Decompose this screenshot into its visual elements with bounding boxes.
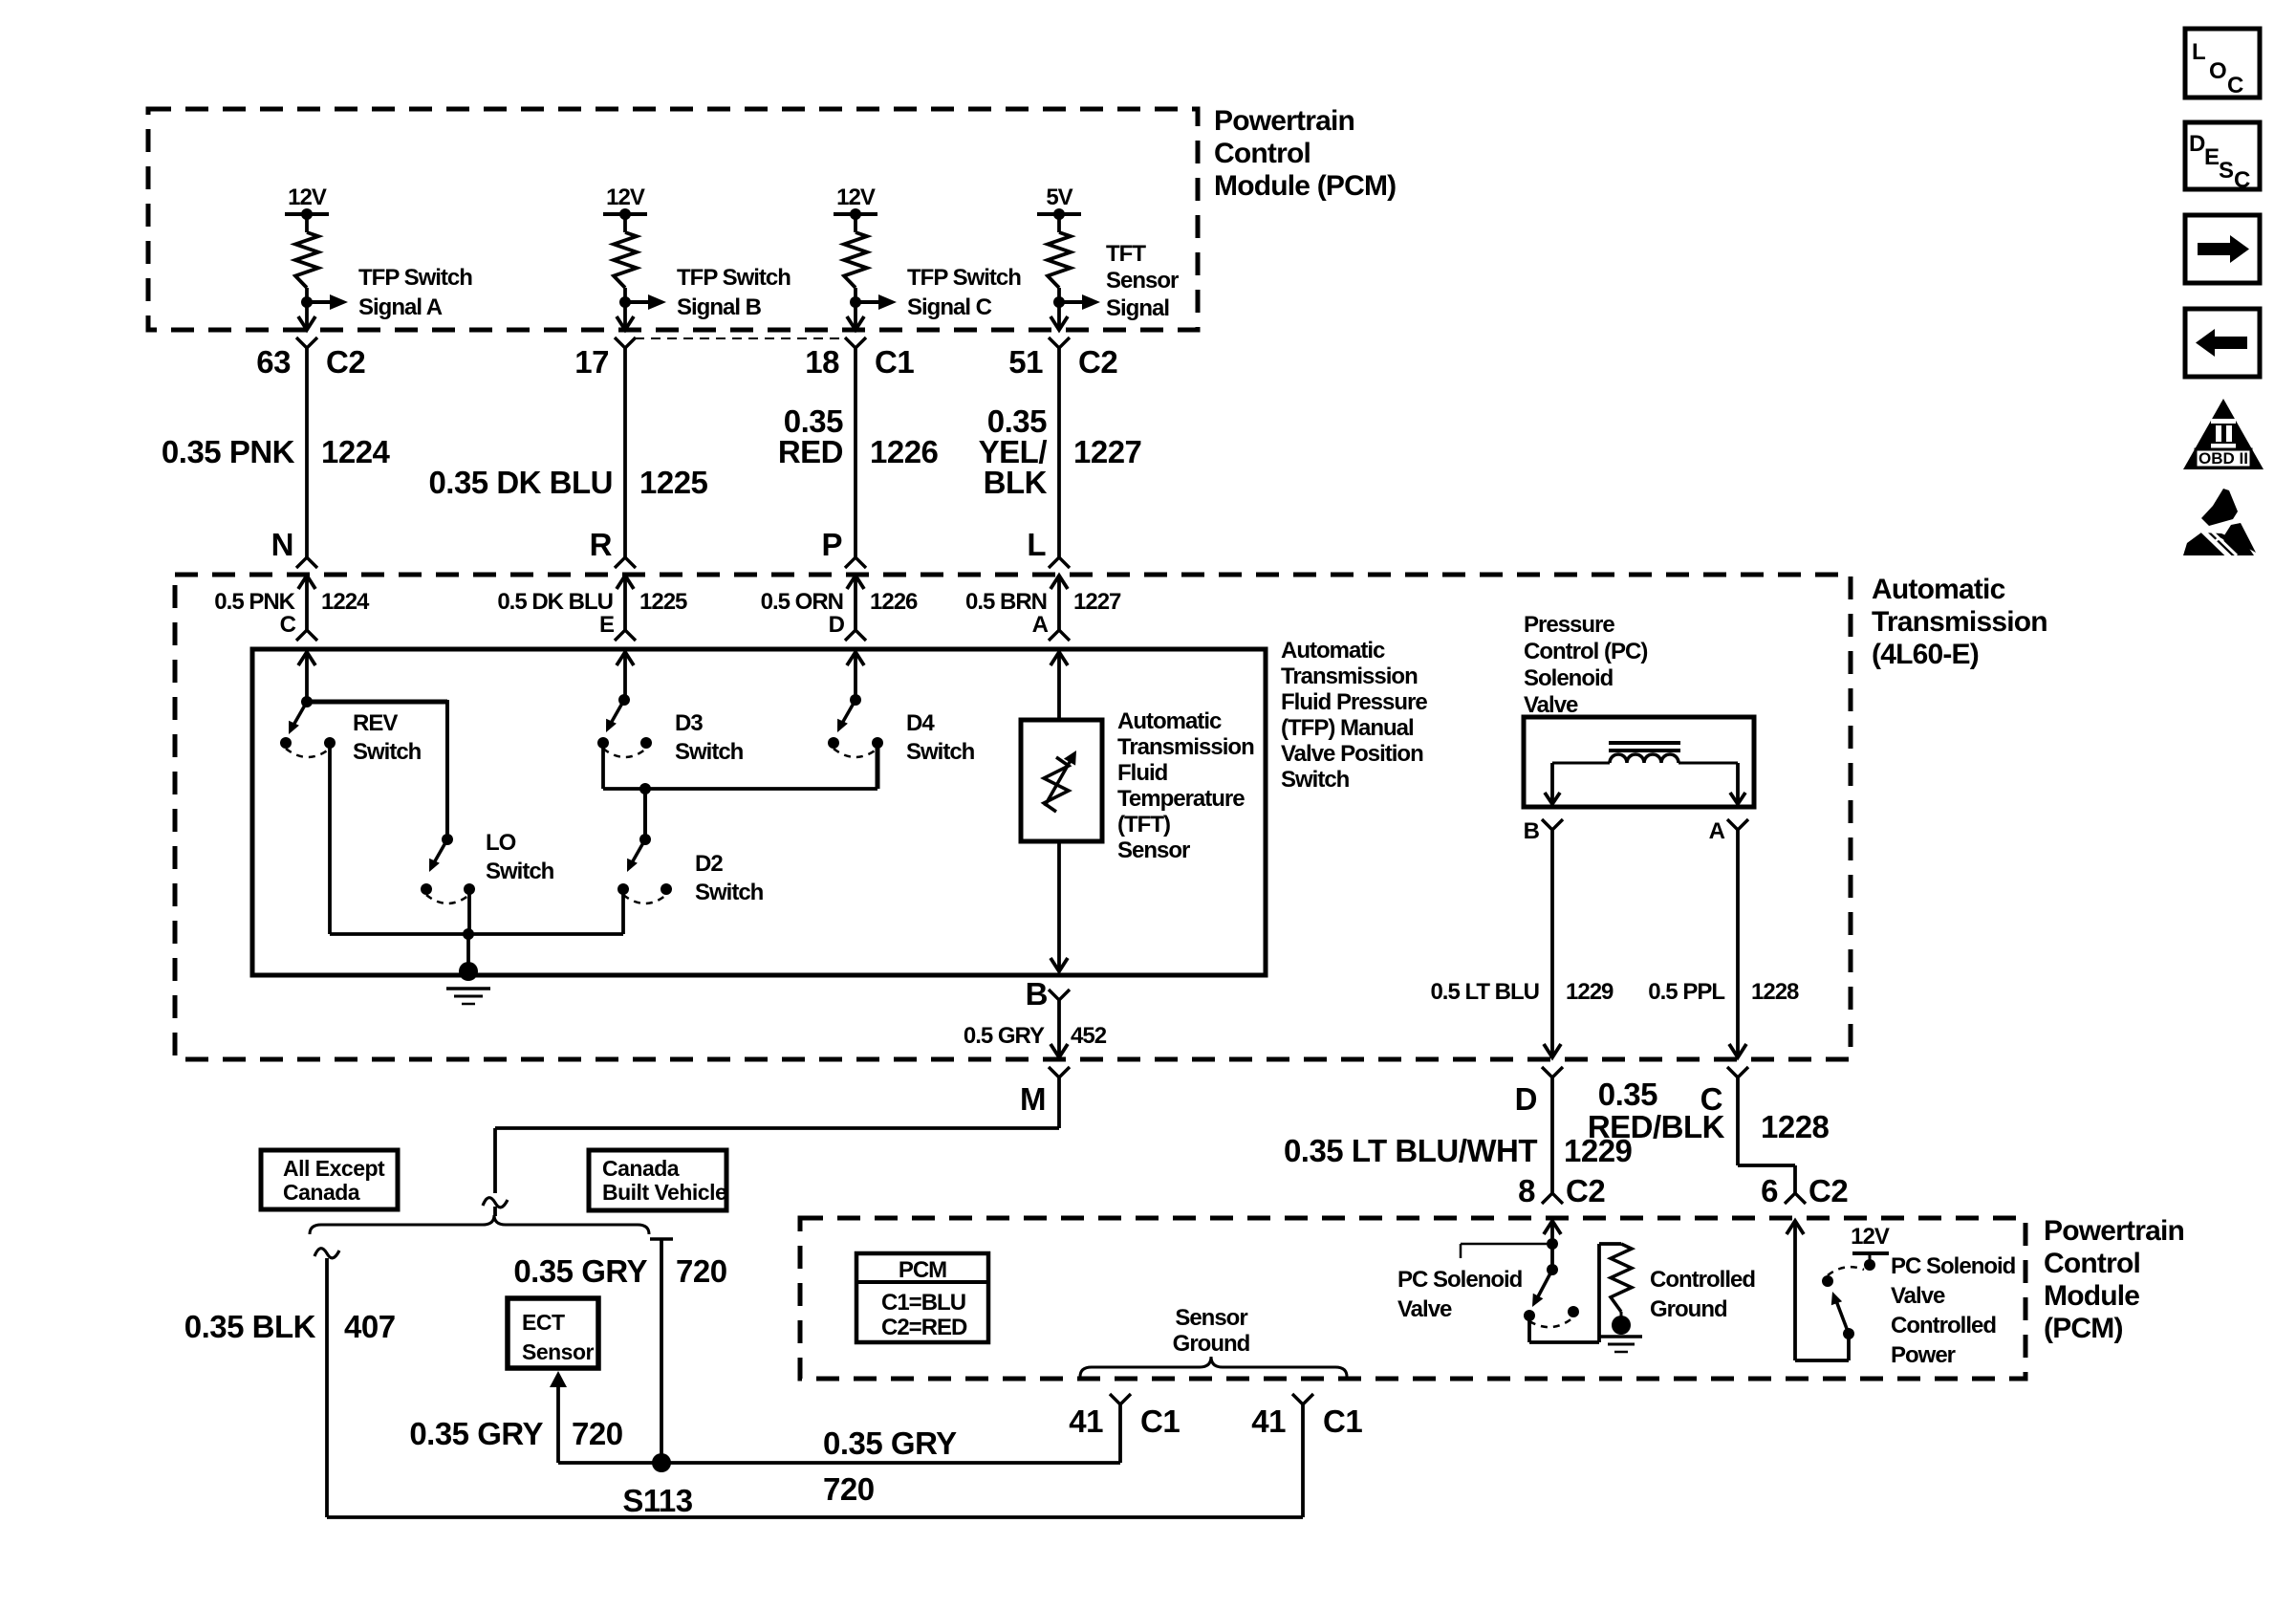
svg-text:C: C [280, 612, 296, 638]
connector fork solenoid pin A [1727, 819, 1748, 830]
value label 0.35 PNK 1224 [162, 434, 391, 469]
resistor R2 (pull-up) [614, 232, 637, 288]
PC solenoid valve box [1524, 717, 1754, 807]
pin label B (solenoid) [1524, 818, 1540, 844]
wire contact to controlled ground [1529, 1244, 1621, 1342]
svg-text:0.35 BLK: 0.35 BLK [184, 1309, 316, 1344]
svg-text:12V: 12V [288, 185, 327, 210]
svg-text:0.35 PNK: 0.35 PNK [162, 434, 295, 469]
value label 0.5 BRN 1227 [965, 589, 1121, 615]
value label 0.35 RED/BLK 1228 [1588, 1077, 1830, 1144]
leader PC Solenoid Valve [1461, 1244, 1547, 1258]
svg-text:1226: 1226 [870, 434, 939, 469]
svg-text:Control: Control [1214, 138, 1310, 169]
svg-text:PCM: PCM [899, 1257, 946, 1283]
PCM connector legend box [856, 1253, 988, 1342]
node 12V supply (circuit 3) [834, 185, 877, 220]
wire break symbol [483, 1198, 508, 1207]
wire LO contact down [467, 889, 471, 934]
option box: All Except Canada [261, 1150, 398, 1209]
svg-text:0.35 DK BLU: 0.35 DK BLU [428, 465, 613, 500]
label: Pressure Control (PC) Solenoid Valve [1524, 612, 1647, 718]
wire supply to resistor R2 [623, 214, 627, 232]
wire D3-D4 cross run [603, 787, 877, 791]
signal tap arrow (circuit 1) [307, 294, 348, 310]
resistor R4 (pull-up) [1048, 232, 1071, 288]
wire coil pin B side [1545, 763, 1560, 804]
label: S113 [622, 1483, 692, 1518]
value label 0.5 LT BLU 1229 [1430, 979, 1614, 1005]
svg-text:Signal C: Signal C [907, 294, 992, 320]
svg-text:A: A [1032, 612, 1049, 638]
svg-text:Controlled: Controlled [1891, 1313, 1996, 1338]
svg-text:C2=RED: C2=RED [881, 1315, 967, 1340]
switch REV arm [289, 702, 307, 734]
switch power arm [1831, 1292, 1849, 1334]
driver switch contacts [1524, 1306, 1579, 1321]
svg-text:Module: Module [2044, 1280, 2139, 1312]
svg-text:A: A [1709, 818, 1725, 844]
svg-text:E: E [2204, 144, 2220, 170]
wire 12xx harness (circuit 2) [623, 348, 627, 557]
svg-text:41: 41 [1069, 1403, 1103, 1439]
wire 1228 harness run [1738, 1077, 1795, 1193]
label: TFP Switch Signal A [358, 265, 472, 320]
svg-text:Valve: Valve [1524, 692, 1578, 718]
pin label A (solenoid) [1709, 818, 1725, 844]
svg-text:0.35 GRY: 0.35 GRY [823, 1425, 957, 1461]
wire pin A into switch box [1051, 652, 1068, 720]
icon: back arrow button [2185, 309, 2260, 377]
pin label B [1026, 976, 1048, 1012]
wire resistor to node (circuit 2) [623, 288, 627, 302]
svg-text:12V: 12V [1851, 1224, 1890, 1250]
wire resistor to node (circuit 1) [305, 288, 309, 302]
svg-text:18: 18 [805, 344, 839, 380]
wire supply to resistor R1 [305, 214, 309, 232]
label: PC Solenoid Valve Controlled Power [1891, 1253, 2016, 1368]
D2 switch throw (dashed) [623, 895, 666, 903]
label: Sensor Ground [1173, 1305, 1250, 1357]
REV switch contacts [280, 737, 336, 749]
svg-text:Automatic: Automatic [1117, 708, 1222, 734]
label: REV Switch [353, 710, 422, 765]
value label 0.5 DK BLU 1225 [497, 589, 687, 615]
wire to 41 C1 right [1301, 1404, 1305, 1517]
node LO switch input [442, 834, 453, 845]
value label 0.35 GRY 720 (upper) [513, 1253, 726, 1289]
wire REV to LO (top run) [307, 700, 447, 839]
pin label C [1700, 1081, 1722, 1117]
svg-text:1225: 1225 [639, 465, 708, 500]
pin label 41 C1 (left) [1069, 1403, 1180, 1439]
REV switch throw (dashed) [286, 749, 330, 757]
wire to options brace [493, 1207, 497, 1216]
svg-text:Sensor: Sensor [522, 1339, 595, 1364]
wire into transmission (circuit 2) [617, 576, 634, 630]
pin D (TFP switch) [829, 612, 845, 638]
label: TFT Sensor Signal [1106, 241, 1179, 321]
svg-text:51: 51 [1008, 344, 1043, 380]
svg-text:12V: 12V [606, 185, 645, 210]
svg-text:Fluid: Fluid [1117, 760, 1168, 786]
D4 switch throw (dashed) [834, 749, 877, 757]
power switch throw (dashed) [1828, 1267, 1864, 1275]
svg-text:ECT: ECT [522, 1310, 565, 1335]
node REV switch input [301, 696, 313, 707]
value label 0.35 GRY 720 (lower) [823, 1425, 957, 1507]
sensor ground brace [1080, 1357, 1347, 1377]
svg-text:0.5 DK BLU: 0.5 DK BLU [497, 589, 613, 615]
pin label 41 C1 (right) [1251, 1403, 1362, 1439]
icon: DESC button [2185, 122, 2260, 193]
svg-text:C1: C1 [1140, 1403, 1180, 1439]
svg-text:0.35: 0.35 [1598, 1077, 1657, 1112]
svg-text:TFP Switch: TFP Switch [907, 265, 1021, 291]
svg-text:720: 720 [572, 1416, 623, 1451]
node driver junction [1547, 1238, 1558, 1250]
svg-text:TFP Switch: TFP Switch [677, 265, 791, 291]
switch LO arm [429, 839, 447, 872]
svg-text:1225: 1225 [639, 589, 687, 615]
svg-text:Built Vehicle: Built Vehicle [602, 1180, 726, 1205]
svg-text:Control (PC): Control (PC) [1524, 639, 1647, 664]
svg-text:0.5 BRN: 0.5 BRN [965, 589, 1047, 615]
wire node to PCM edge (circuit 3) [847, 302, 864, 330]
svg-text:S: S [2219, 158, 2234, 184]
svg-text:Sensor: Sensor [1175, 1305, 1247, 1331]
svg-text:B: B [1524, 818, 1540, 844]
svg-text:1228: 1228 [1751, 979, 1799, 1005]
pin label 8 C2 [1518, 1173, 1605, 1208]
svg-text:PC Solenoid: PC Solenoid [1891, 1253, 2016, 1279]
svg-text:0.5 GRY: 0.5 GRY [964, 1023, 1045, 1049]
node D2 switch input [639, 834, 651, 845]
svg-text:Switch: Switch [486, 859, 554, 884]
svg-text:O: O [2209, 58, 2226, 84]
svg-text:D2: D2 [695, 851, 723, 877]
node signal junction (circuit 1) [301, 296, 313, 308]
svg-text:0.5 LT BLU: 0.5 LT BLU [1430, 979, 1539, 1005]
wire D4 contact down [876, 743, 880, 789]
pin label 17 [574, 344, 609, 380]
pin label 6 C2 [1761, 1173, 1848, 1208]
svg-text:C2: C2 [1809, 1173, 1848, 1208]
svg-text:OBD II: OBD II [2199, 449, 2248, 468]
D3 switch throw (dashed) [603, 749, 646, 757]
power switch contact [1822, 1275, 1833, 1287]
wire 452 to transmission edge [1051, 1000, 1068, 1057]
wire 12xx harness (circuit 3) [854, 348, 857, 557]
svg-text:C2: C2 [1078, 344, 1117, 380]
wire node to PCM edge (circuit 2) [617, 302, 634, 330]
svg-text:0.35 GRY: 0.35 GRY [409, 1416, 543, 1451]
wire 1228 inside transmission [1729, 830, 1746, 1057]
svg-text:(4L60-E): (4L60-E) [1872, 639, 1979, 670]
svg-text:5V: 5V [1046, 185, 1072, 210]
wire pin C into switch box [298, 652, 315, 702]
svg-text:Transmission: Transmission [1281, 664, 1418, 689]
svg-text:N: N [271, 527, 293, 562]
svg-text:RED/BLK: RED/BLK [1588, 1109, 1725, 1144]
node signal junction (circuit 4) [1053, 296, 1065, 308]
wire node to PCM edge (circuit 4) [1051, 302, 1068, 330]
svg-text:Module (PCM): Module (PCM) [1214, 170, 1396, 202]
svg-text:Switch: Switch [1281, 767, 1350, 793]
value label 0.35 RED 1226 [778, 403, 939, 469]
wire D3 contact down [601, 743, 605, 789]
solenoid core bars [1609, 743, 1680, 751]
node 12V supply (circuit 2) [603, 185, 647, 220]
node signal junction (circuit 3) [850, 296, 861, 308]
label: D3 Switch [675, 710, 744, 765]
svg-text:407: 407 [344, 1309, 396, 1344]
connector fork (transmission side, circuit 1) [296, 557, 317, 568]
connector fork at TFP switch pin E [615, 630, 636, 641]
node D2 branch junction [639, 783, 651, 794]
wire 1229 inside transmission [1544, 830, 1561, 1057]
connector fork pin 51 C2 (PCM side) [1049, 337, 1070, 348]
wire supply to resistor R4 [1057, 214, 1061, 232]
svg-text:TFT: TFT [1106, 241, 1146, 267]
driver switch throw (dashed) [1529, 1317, 1573, 1327]
wire D2 contact down [621, 889, 625, 934]
svg-text:P: P [821, 527, 842, 562]
D2 switch contacts [617, 883, 672, 895]
svg-text:Canada: Canada [283, 1180, 360, 1205]
svg-text:1227: 1227 [1073, 589, 1121, 615]
connector fork C (harness) [1727, 1067, 1748, 1077]
svg-text:1229: 1229 [1566, 979, 1614, 1005]
svg-text:Sensor: Sensor [1117, 838, 1190, 863]
wire resistor to node (circuit 3) [854, 288, 857, 302]
stub (Canada branch) [650, 1237, 673, 1241]
pin A (TFP switch) [1032, 612, 1049, 638]
switch D3 arm [606, 700, 624, 732]
svg-text:Control: Control [2044, 1248, 2140, 1279]
connector fork pin 41 C1 (left) [1110, 1394, 1131, 1404]
connector fork D (harness) [1542, 1067, 1563, 1077]
svg-text:0.35 LT BLU/WHT: 0.35 LT BLU/WHT [1284, 1133, 1537, 1168]
svg-text:C: C [2234, 167, 2250, 193]
resistor R1 (pull-up) [295, 232, 318, 288]
pin label 51 C2 [1008, 344, 1117, 380]
svg-text:720: 720 [823, 1471, 875, 1507]
connector fork M (harness side) [1049, 1067, 1070, 1077]
resistor (controlled ground) [1611, 1244, 1632, 1312]
svg-text:S113: S113 [622, 1483, 692, 1518]
svg-text:Switch: Switch [353, 739, 422, 765]
svg-text:M: M [1020, 1081, 1046, 1117]
svg-text:Power: Power [1891, 1342, 1956, 1368]
wire pin E into switch box [617, 652, 634, 700]
label: PC Solenoid Valve (driver) [1397, 1267, 1523, 1322]
node D4 switch input [850, 694, 861, 706]
PCM module boundary (bottom, dashed) [800, 1218, 2025, 1379]
wire into transmission (circuit 3) [847, 576, 864, 630]
resistor R3 (pull-up) [844, 232, 867, 288]
svg-text:0.5 PPL: 0.5 PPL [1648, 979, 1724, 1005]
svg-text:BLK: BLK [984, 465, 1048, 500]
svg-text:12V: 12V [836, 185, 876, 210]
ECT sensor box [508, 1298, 598, 1368]
label: D4 Switch [906, 710, 975, 765]
svg-text:Powertrain: Powertrain [2044, 1215, 2184, 1247]
value label 0.35 DK BLU 1225 [428, 465, 707, 500]
dashed connector C1 tie line [635, 337, 842, 339]
value label 0.5 PNK 1224 [214, 589, 370, 615]
svg-text:Signal A: Signal A [358, 294, 443, 320]
svg-text:Switch: Switch [695, 880, 764, 905]
wire S113 to 41 C1 left [661, 1404, 1120, 1463]
node P (transmission pin) [821, 527, 842, 562]
svg-text:Valve: Valve [1397, 1296, 1452, 1322]
D3 switch contacts [597, 737, 652, 749]
wire junction to D2 [643, 789, 647, 839]
signal tap arrow (circuit 3) [856, 294, 897, 310]
svg-text:PC Solenoid: PC Solenoid [1397, 1267, 1523, 1293]
connector fork pin 8 C2 [1542, 1193, 1563, 1204]
pin label 63 C2 [256, 344, 365, 380]
svg-text:All Except: All Except [283, 1156, 385, 1181]
svg-text:Transmission: Transmission [1872, 606, 2047, 638]
Automatic Transmission boundary (dashed) [175, 575, 1851, 1059]
wire break (All Except Canada branch) [314, 1249, 339, 1258]
svg-text:Signal B: Signal B [677, 294, 762, 320]
wire resistor to node (circuit 4) [1057, 288, 1061, 302]
LO switch contacts [421, 883, 475, 895]
connector fork pin 17 (PCM side) [615, 337, 636, 348]
label: Automatic Transmission Fluid Pressure (TFP) Manual Valve Position Switch [1281, 638, 1427, 793]
svg-text:Canada: Canada [602, 1156, 680, 1181]
svg-text:Ground: Ground [1650, 1296, 1727, 1322]
svg-text:RED: RED [778, 434, 843, 469]
svg-text:(TFT): (TFT) [1117, 812, 1170, 838]
node power switch pivot [1843, 1328, 1854, 1339]
svg-text:TFP Switch: TFP Switch [358, 265, 472, 291]
connector fork (transmission side, circuit 2) [615, 557, 636, 568]
svg-text:LO: LO [486, 830, 516, 856]
label: D2 Switch [695, 851, 764, 905]
value label 0.35 BLK 407 [184, 1309, 396, 1344]
node switch pivot [1547, 1264, 1558, 1275]
svg-text:D3: D3 [675, 710, 703, 736]
svg-text:REV: REV [353, 710, 398, 736]
svg-text:Switch: Switch [906, 739, 975, 765]
wire REV contact down [328, 743, 332, 934]
pin label M [1020, 1081, 1046, 1117]
svg-text:L: L [1027, 527, 1046, 562]
svg-text:(PCM): (PCM) [2044, 1313, 2123, 1344]
svg-text:63: 63 [256, 344, 291, 380]
svg-text:1224: 1224 [321, 434, 391, 469]
icon: forward arrow button [2185, 215, 2260, 283]
signal tap arrow (circuit 2) [625, 294, 666, 310]
inductor L1 (PC solenoid coil) [1552, 754, 1738, 763]
value label 0.35 LT BLU/WHT 1229 [1284, 1133, 1633, 1168]
node L (transmission pin) [1027, 527, 1046, 562]
svg-text:Automatic: Automatic [1281, 638, 1385, 664]
wire 12xx harness (circuit 1) [305, 348, 309, 557]
node D3 switch input [618, 694, 630, 706]
TFT thermistor element [1044, 751, 1076, 812]
splice S113 [652, 1453, 671, 1472]
pin label 18 C1 [805, 344, 914, 380]
connector fork pin 63 C2 (PCM side) [296, 337, 317, 348]
svg-text:E: E [599, 612, 615, 638]
svg-text:L: L [2192, 39, 2205, 65]
svg-text:720: 720 [676, 1253, 727, 1289]
pin C (TFP switch) [280, 612, 296, 638]
svg-text:C2: C2 [326, 344, 365, 380]
svg-text:C2: C2 [1566, 1173, 1605, 1208]
label: Automatic Transmission Fluid Temperature (TFT) Sensor [1117, 708, 1254, 863]
node N (transmission pin) [271, 527, 293, 562]
svg-text:Solenoid: Solenoid [1524, 665, 1614, 691]
connector fork pin 6 C2 [1785, 1193, 1806, 1204]
TFT sensor box [1021, 720, 1102, 841]
wire TFT sensor to pin B [1051, 841, 1068, 971]
node common junction [463, 928, 474, 940]
svg-text:D: D [829, 612, 845, 638]
options brace [310, 1215, 649, 1234]
label: TFP Switch Signal C [907, 265, 1021, 320]
wire 1229 harness run [1550, 1077, 1554, 1193]
svg-text:C1=BLU: C1=BLU [881, 1290, 965, 1316]
svg-text:1227: 1227 [1073, 434, 1141, 469]
label: TFP Switch Signal B [677, 265, 791, 320]
icon: OBD II triangle [2183, 399, 2264, 469]
svg-text:Signal: Signal [1106, 295, 1169, 321]
svg-text:1228: 1228 [1761, 1109, 1830, 1144]
node R (transmission pin) [590, 527, 613, 562]
node 5V supply (circuit 4) [1037, 185, 1081, 220]
label: Powertrain Control Module (PCM) top [1214, 105, 1396, 202]
signal tap arrow (circuit 4) [1059, 294, 1100, 310]
svg-text:41: 41 [1251, 1403, 1286, 1439]
wire 407 bottom run [327, 1515, 1303, 1519]
svg-text:Valve Position: Valve Position [1281, 741, 1423, 767]
node 12V supply (circuit 1) [285, 185, 329, 220]
svg-text:C1: C1 [1323, 1403, 1362, 1439]
wire supply to resistor R3 [854, 214, 857, 232]
connector fork pin 41 C1 (right) [1292, 1394, 1313, 1404]
label: LO Switch [486, 830, 554, 884]
svg-text:D: D [2189, 131, 2205, 157]
svg-text:Switch: Switch [675, 739, 744, 765]
wire into transmission (circuit 1) [298, 576, 315, 630]
svg-text:1226: 1226 [870, 589, 918, 615]
wire pin 6 into PCM [1787, 1221, 1849, 1360]
node signal junction (circuit 2) [619, 296, 631, 308]
LO switch throw (dashed) [426, 895, 469, 903]
label: Automatic Transmission (4L60-E) [1872, 574, 2047, 670]
wire common run to ground [330, 932, 623, 936]
connector fork at TFP switch pin A [1049, 630, 1070, 641]
value label 0.5 GRY 452 [964, 1023, 1107, 1049]
value label 0.35 GRY 720 (ECT) [409, 1416, 622, 1451]
svg-text:C: C [2227, 73, 2243, 98]
PCM module boundary (top, dashed) [148, 109, 1198, 330]
svg-text:Controlled: Controlled [1650, 1267, 1755, 1293]
svg-text:D: D [1515, 1081, 1537, 1117]
svg-text:(TFP) Manual: (TFP) Manual [1281, 715, 1414, 741]
wire 452 harness run [495, 1077, 1059, 1193]
switch D2 arm [627, 839, 645, 872]
D4 switch contacts [828, 737, 883, 749]
svg-text:Pressure: Pressure [1524, 612, 1614, 638]
icon: LOC button [2185, 29, 2260, 98]
